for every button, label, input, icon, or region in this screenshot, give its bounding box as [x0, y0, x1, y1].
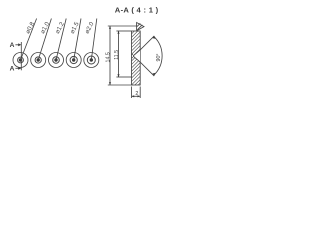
dim 2 line	[132, 95, 140, 97]
dim 2 arrow left	[132, 95, 135, 97]
svg-text:⌀2.0: ⌀2.0	[84, 20, 96, 35]
leader line hole 3	[56, 19, 66, 61]
hole 1 center dot	[19, 58, 22, 61]
dim 14.5 extension line top	[108, 25, 137, 27]
countersink cutout white	[133, 50, 140, 62]
hole 3 center dot	[54, 58, 57, 61]
svg-text:2: 2	[135, 91, 138, 97]
countersink opening white cutout	[133, 49, 141, 63]
dim 11.5 extension line bottom	[116, 76, 131, 78]
dim 2 extension line right	[139, 87, 141, 99]
svg-text:11.5: 11.5	[114, 50, 120, 60]
through hole white slot	[131, 54, 134, 57]
svg-text:⌀1.0: ⌀1.0	[39, 20, 51, 35]
leader line hole 1	[21, 19, 37, 61]
leader line hole 2	[38, 19, 51, 61]
hole 2 center dot	[37, 58, 40, 61]
hole 1 countersink outer circle	[13, 53, 28, 68]
dim 14.5 arrow bottom	[109, 82, 111, 85]
through hole edge lower	[132, 57, 134, 59]
hole 4 countersink outer circle	[66, 53, 81, 68]
top tooth triangle	[137, 23, 144, 31]
angle extension line upper	[140, 36, 154, 50]
section body outline	[132, 31, 141, 85]
countersink V edge lower	[133, 56, 140, 62]
section body hatching	[124, 14, 148, 106]
leader line hole 4	[74, 19, 81, 61]
angle arc arrow upper	[152, 36, 155, 39]
hole 5 center dot	[90, 58, 93, 61]
dim 14.5 extension line bottom	[108, 84, 132, 86]
svg-text:A: A	[10, 42, 15, 49]
dim 2 arrow right	[138, 95, 141, 97]
hole 3 countersink outer circle	[49, 53, 64, 68]
dim 11.5 arrow top	[117, 31, 119, 34]
angle extension line lower	[140, 62, 154, 76]
angle dimension arc 90 deg	[154, 36, 162, 75]
dim 11.5 extension line top	[116, 30, 131, 32]
svg-text:14.5: 14.5	[105, 52, 111, 62]
tooth inner hatch line 2	[137, 23, 140, 26]
svg-text:A-A ( 4 : 1 ): A-A ( 4 : 1 )	[115, 5, 159, 14]
dim 14.5 line	[109, 26, 111, 85]
svg-text:A: A	[10, 66, 15, 73]
hole 3 inner circle	[53, 57, 60, 64]
hole 5 countersink outer circle	[84, 53, 99, 68]
dim 11.5 arrow bottom	[117, 74, 119, 77]
hole 4 inner circle	[70, 56, 77, 63]
dim 11.5 line	[118, 31, 120, 77]
hole 5 inner circle	[87, 56, 95, 64]
through hole edge upper	[132, 53, 134, 55]
leader line hole 5	[91, 19, 97, 61]
tooth inner hatch line 1	[137, 25, 142, 30]
dim 2 extension line left	[131, 87, 133, 99]
hole 4 center dot	[72, 58, 75, 61]
countersink V edge upper	[133, 50, 140, 56]
svg-text:90°: 90°	[156, 53, 162, 61]
countersink aperture edge line	[139, 50, 141, 62]
hole 2 countersink outer circle	[31, 53, 46, 68]
section arrow bottom	[15, 67, 21, 70]
hole 2 inner circle	[35, 57, 41, 63]
section cutting line A-A	[20, 42, 22, 70]
section arrow top	[15, 43, 21, 46]
dim 14.5 arrow top	[109, 26, 111, 29]
angle arc arrow lower	[152, 73, 155, 76]
hole 1 inner circle	[18, 57, 24, 63]
